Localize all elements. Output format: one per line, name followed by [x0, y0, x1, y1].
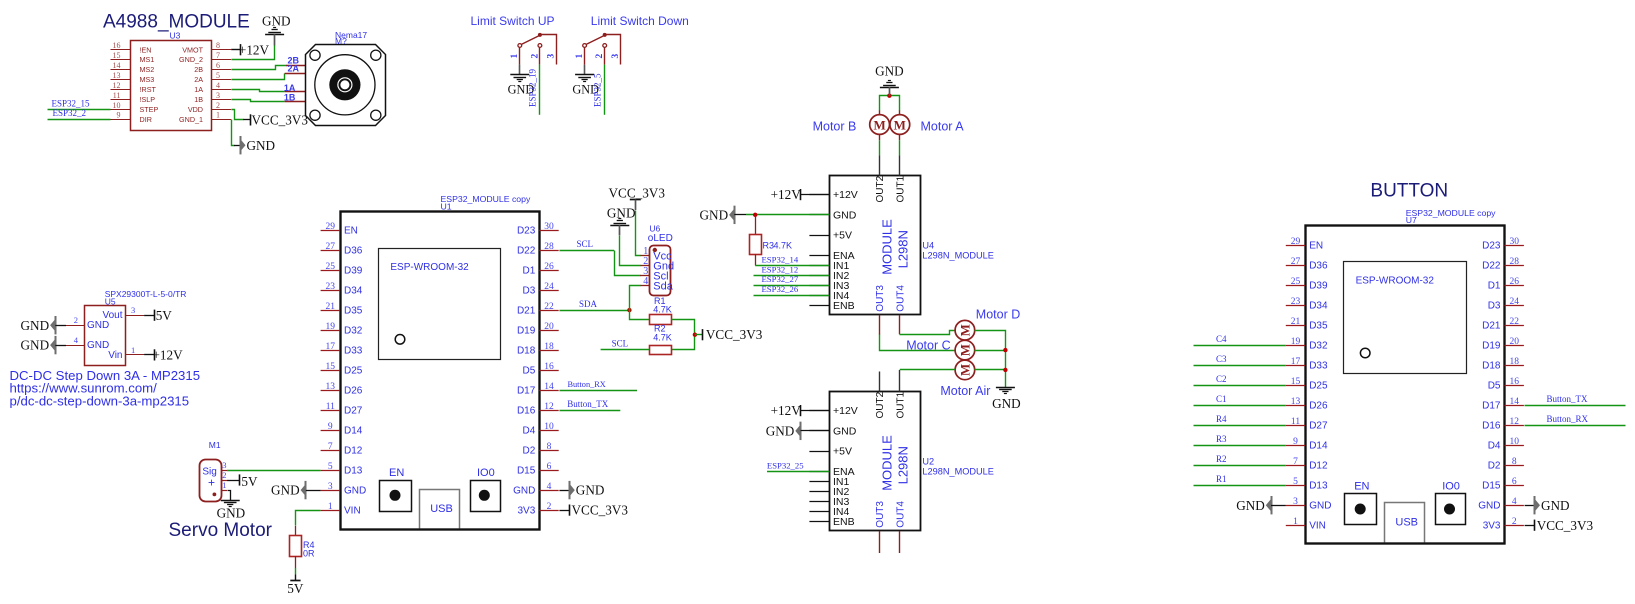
svg-text:GND_2: GND_2 — [179, 55, 203, 64]
svg-text:C2: C2 — [1216, 374, 1227, 384]
svg-text:2: 2 — [222, 470, 226, 480]
svg-text:17: 17 — [1291, 357, 1301, 367]
svg-text:4: 4 — [643, 276, 648, 287]
svg-text:D32: D32 — [1309, 341, 1328, 352]
svg-text:GND: GND — [875, 63, 904, 78]
svg-text:D3: D3 — [523, 286, 536, 297]
svg-text:IO0: IO0 — [477, 467, 495, 479]
svg-text:ESP32_5: ESP32_5 — [592, 73, 602, 107]
svg-text:D18: D18 — [1482, 361, 1501, 372]
svg-text:SCL: SCL — [612, 339, 629, 349]
svg-text:D4: D4 — [1488, 441, 1501, 452]
svg-text:EN: EN — [1309, 241, 1323, 252]
svg-text:15: 15 — [326, 362, 336, 372]
svg-text:D1: D1 — [523, 266, 536, 277]
svg-text:1: 1 — [216, 111, 220, 120]
svg-text:28: 28 — [544, 242, 554, 252]
svg-text:30: 30 — [544, 222, 554, 232]
svg-text:ESP32_26: ESP32_26 — [762, 284, 799, 294]
svg-text:GND: GND — [1478, 501, 1500, 512]
svg-text:Vin: Vin — [108, 350, 122, 361]
svg-text:D13: D13 — [344, 466, 363, 477]
svg-text:OUT4: OUT4 — [895, 285, 906, 312]
svg-text:OUT3: OUT3 — [875, 285, 886, 312]
svg-text:5: 5 — [328, 462, 333, 472]
svg-text:D4: D4 — [523, 426, 536, 437]
svg-text:28: 28 — [1509, 257, 1519, 267]
svg-text:MODULE: MODULE — [879, 219, 894, 275]
svg-text:19: 19 — [1291, 337, 1301, 347]
svg-text:!RST: !RST — [140, 85, 157, 94]
svg-text:OUT1: OUT1 — [895, 391, 906, 418]
svg-text:ESP32_MODULE copy: ESP32_MODULE copy — [1406, 208, 1496, 218]
svg-text:D3: D3 — [1488, 301, 1501, 312]
svg-text:3: 3 — [611, 54, 621, 59]
svg-text:29: 29 — [326, 222, 336, 232]
svg-text:D22: D22 — [517, 246, 536, 257]
svg-text:C3: C3 — [1216, 354, 1227, 364]
svg-text:GND: GND — [21, 338, 50, 353]
svg-text:D36: D36 — [1309, 261, 1328, 272]
svg-text:7: 7 — [1293, 457, 1298, 467]
svg-text:SPX29300T-L-5-0/TR: SPX29300T-L-5-0/TR — [105, 289, 187, 299]
svg-text:Sda: Sda — [653, 280, 673, 292]
svg-text:21: 21 — [326, 302, 336, 312]
svg-text:R1: R1 — [1216, 474, 1227, 484]
svg-text:Limit Switch Down: Limit Switch Down — [591, 14, 689, 28]
svg-text:1A: 1A — [194, 85, 203, 94]
svg-text:GND: GND — [344, 486, 366, 497]
svg-text:ESP32_19: ESP32_19 — [528, 68, 538, 107]
svg-text:D13: D13 — [1309, 481, 1328, 492]
svg-text:23: 23 — [326, 282, 336, 292]
svg-text:3: 3 — [216, 91, 220, 100]
svg-text:26: 26 — [544, 262, 554, 272]
svg-text:+: + — [208, 476, 215, 490]
svg-text:GND: GND — [1236, 498, 1265, 513]
svg-text:EN: EN — [344, 226, 358, 237]
svg-text:GND: GND — [992, 396, 1021, 411]
svg-text:USB: USB — [430, 503, 453, 515]
svg-text:2A: 2A — [288, 64, 300, 74]
svg-text:19: 19 — [326, 322, 336, 332]
svg-text:M: M — [894, 117, 906, 132]
svg-text:D33: D33 — [1309, 361, 1328, 372]
svg-text:+12V: +12V — [833, 405, 858, 417]
svg-text:3: 3 — [1293, 497, 1298, 507]
svg-text:14: 14 — [113, 61, 121, 70]
svg-text:GND: GND — [217, 505, 246, 520]
svg-text:13: 13 — [1291, 397, 1301, 407]
svg-text:16: 16 — [544, 362, 554, 372]
svg-text:3: 3 — [546, 54, 556, 59]
svg-text:!SLP: !SLP — [140, 95, 156, 104]
svg-text:+5V: +5V — [833, 230, 852, 242]
svg-text:M: M — [958, 344, 973, 356]
svg-text:4: 4 — [1512, 497, 1517, 507]
svg-text:Motor A: Motor A — [921, 119, 965, 133]
svg-text:1: 1 — [222, 480, 226, 490]
svg-text:30: 30 — [1509, 237, 1519, 247]
svg-text:M: M — [958, 324, 973, 336]
svg-text:2: 2 — [530, 54, 540, 59]
svg-text:5V: 5V — [156, 308, 173, 323]
svg-text:3: 3 — [328, 482, 333, 492]
svg-text:Button_TX: Button_TX — [567, 399, 609, 409]
svg-text:GND: GND — [21, 318, 50, 333]
svg-text:M: M — [873, 117, 885, 132]
svg-text:GND: GND — [87, 320, 109, 331]
svg-text:2: 2 — [216, 101, 220, 110]
svg-text:24: 24 — [544, 282, 554, 292]
svg-text:D17: D17 — [1482, 401, 1501, 412]
svg-text:2: 2 — [1512, 517, 1517, 527]
svg-text:ESP32_27: ESP32_27 — [762, 274, 799, 284]
svg-text:D12: D12 — [1309, 461, 1328, 472]
svg-text:L298N: L298N — [895, 230, 910, 268]
svg-text:C4: C4 — [1216, 334, 1227, 344]
svg-text:oLED: oLED — [648, 233, 673, 244]
svg-text:18: 18 — [544, 342, 554, 352]
svg-text:ESP32_2: ESP32_2 — [53, 108, 87, 118]
svg-text:29: 29 — [1291, 237, 1301, 247]
svg-text:D19: D19 — [1482, 341, 1501, 352]
svg-text:!EN: !EN — [140, 45, 152, 54]
svg-text:+12V: +12V — [153, 348, 184, 363]
svg-text:Vout: Vout — [102, 310, 122, 321]
svg-text:4: 4 — [216, 81, 220, 90]
svg-text:ESP32_12: ESP32_12 — [762, 264, 799, 274]
svg-text:ENB: ENB — [833, 300, 855, 312]
svg-text:4.7K: 4.7K — [653, 332, 672, 342]
svg-text:VMOT: VMOT — [182, 45, 203, 54]
svg-text:10: 10 — [1509, 437, 1519, 447]
svg-text:D23: D23 — [1482, 241, 1501, 252]
svg-text:D26: D26 — [1309, 401, 1328, 412]
svg-text:D25: D25 — [1309, 381, 1328, 392]
svg-text:D34: D34 — [344, 286, 363, 297]
svg-text:D27: D27 — [344, 406, 363, 417]
svg-text:L298N_MODULE: L298N_MODULE — [922, 466, 994, 476]
svg-text:10: 10 — [113, 101, 121, 110]
svg-text:14: 14 — [544, 382, 554, 392]
svg-text:3V3: 3V3 — [1483, 521, 1501, 532]
svg-text:1: 1 — [575, 54, 585, 59]
svg-text:VDD: VDD — [188, 105, 203, 114]
svg-text:D16: D16 — [1482, 421, 1501, 432]
svg-text:0R: 0R — [303, 548, 315, 558]
svg-text:D1: D1 — [1488, 281, 1501, 292]
svg-text:p/dc-dc-step-down-3a-mp2315: p/dc-dc-step-down-3a-mp2315 — [10, 394, 190, 409]
svg-text:Motor Air: Motor Air — [940, 384, 990, 398]
svg-text:GND: GND — [1309, 501, 1331, 512]
svg-text:D19: D19 — [517, 326, 536, 337]
svg-text:1B: 1B — [284, 93, 296, 103]
svg-text:2A: 2A — [194, 75, 203, 84]
svg-text:GND: GND — [766, 423, 795, 438]
svg-text:20: 20 — [544, 322, 554, 332]
svg-text:13: 13 — [326, 382, 336, 392]
svg-text:MODULE: MODULE — [879, 435, 894, 491]
svg-text:GND: GND — [513, 486, 535, 497]
svg-text:1: 1 — [510, 54, 520, 59]
svg-text:OUT4: OUT4 — [895, 501, 906, 528]
svg-text:1: 1 — [328, 502, 333, 512]
svg-text:4.7K: 4.7K — [774, 240, 793, 250]
svg-text:9: 9 — [328, 422, 333, 432]
svg-text:D35: D35 — [1309, 321, 1328, 332]
svg-text:D17: D17 — [517, 386, 536, 397]
svg-text:D5: D5 — [1488, 381, 1501, 392]
svg-text:14: 14 — [1509, 397, 1519, 407]
svg-text:GND: GND — [1541, 498, 1570, 513]
svg-text:2: 2 — [547, 502, 552, 512]
svg-text:GND: GND — [262, 13, 291, 28]
svg-text:D21: D21 — [1482, 321, 1501, 332]
svg-text:+12V: +12V — [771, 187, 802, 202]
svg-text:D23: D23 — [517, 226, 536, 237]
svg-text:U3: U3 — [170, 31, 181, 41]
svg-text:GND: GND — [576, 483, 605, 498]
svg-text:MS1: MS1 — [140, 55, 155, 64]
svg-text:Button_RX: Button_RX — [1547, 414, 1589, 424]
svg-text:L298N: L298N — [895, 446, 910, 484]
svg-text:Button_RX: Button_RX — [568, 380, 606, 389]
svg-text:ESP32_14: ESP32_14 — [762, 254, 799, 264]
svg-text:8: 8 — [1512, 457, 1517, 467]
svg-text:OUT2: OUT2 — [875, 175, 886, 202]
svg-text:D33: D33 — [344, 346, 363, 357]
svg-text:12: 12 — [113, 81, 121, 90]
svg-text:25: 25 — [1291, 277, 1301, 287]
svg-text:3: 3 — [131, 305, 135, 315]
svg-text:D5: D5 — [523, 366, 536, 377]
svg-text:D16: D16 — [517, 406, 536, 417]
svg-text:1: 1 — [1293, 517, 1298, 527]
svg-text:DIR: DIR — [140, 115, 152, 124]
svg-text:27: 27 — [326, 242, 336, 252]
svg-text:6: 6 — [1512, 477, 1517, 487]
svg-text:USB: USB — [1395, 517, 1418, 529]
svg-text:GND: GND — [833, 209, 857, 221]
svg-text:D22: D22 — [1482, 261, 1501, 272]
svg-text:1: 1 — [131, 345, 135, 355]
svg-text:5V: 5V — [287, 581, 304, 596]
svg-text:Motor B: Motor B — [813, 119, 857, 133]
svg-text:OUT2: OUT2 — [875, 391, 886, 418]
svg-text:26: 26 — [1509, 277, 1519, 287]
svg-text:4.7K: 4.7K — [653, 305, 672, 315]
svg-text:9: 9 — [117, 111, 121, 120]
svg-text:IO0: IO0 — [1442, 481, 1460, 493]
svg-text:Limit Switch UP: Limit Switch UP — [471, 14, 555, 28]
svg-text:VCC_3V3: VCC_3V3 — [252, 113, 309, 128]
svg-text:ESP-WROOM-32: ESP-WROOM-32 — [1356, 276, 1435, 287]
svg-text:+12V: +12V — [771, 403, 802, 418]
svg-text:24: 24 — [1509, 297, 1519, 307]
svg-text:11: 11 — [326, 402, 335, 412]
svg-text:D2: D2 — [523, 446, 536, 457]
svg-text:D21: D21 — [517, 306, 536, 317]
svg-text:MS2: MS2 — [140, 65, 155, 74]
svg-text:D2: D2 — [1488, 461, 1501, 472]
svg-text:R2: R2 — [1216, 454, 1227, 464]
svg-text:D18: D18 — [517, 346, 536, 357]
svg-text:8: 8 — [547, 442, 552, 452]
svg-text:VIN: VIN — [344, 506, 361, 517]
svg-text:EN: EN — [389, 467, 404, 479]
svg-text:D15: D15 — [517, 466, 536, 477]
svg-text:ESP32_25: ESP32_25 — [767, 460, 804, 470]
svg-text:M?: M? — [335, 36, 347, 46]
svg-text:2: 2 — [74, 315, 78, 325]
svg-text:7: 7 — [328, 442, 333, 452]
svg-text:+5V: +5V — [833, 446, 852, 458]
svg-text:EN: EN — [1354, 481, 1369, 493]
svg-text:BUTTON: BUTTON — [1370, 181, 1448, 202]
svg-text:GND_1: GND_1 — [179, 115, 203, 124]
svg-text:27: 27 — [1291, 257, 1301, 267]
svg-text:D34: D34 — [1309, 301, 1328, 312]
svg-text:VCC_3V3: VCC_3V3 — [609, 185, 666, 200]
svg-text:VIN: VIN — [1309, 521, 1326, 532]
svg-text:OUT1: OUT1 — [895, 175, 906, 202]
svg-text:17: 17 — [326, 342, 336, 352]
svg-text:6: 6 — [216, 61, 220, 70]
svg-text:Button_TX: Button_TX — [1547, 394, 1589, 404]
svg-text:ENB: ENB — [833, 516, 855, 528]
svg-text:GND: GND — [247, 138, 276, 153]
svg-text:Motor C: Motor C — [906, 338, 950, 352]
svg-text:3V3: 3V3 — [518, 506, 536, 517]
svg-text:U6: U6 — [649, 224, 660, 234]
svg-text:R3: R3 — [763, 240, 775, 250]
svg-text:21: 21 — [1291, 317, 1301, 327]
svg-text:L298N_MODULE: L298N_MODULE — [922, 250, 994, 260]
svg-text:22: 22 — [1509, 317, 1519, 327]
svg-text:ESP32_15: ESP32_15 — [52, 98, 91, 108]
svg-text:D12: D12 — [344, 446, 363, 457]
svg-text:OUT3: OUT3 — [875, 501, 886, 528]
svg-text:D36: D36 — [344, 246, 363, 257]
svg-text:20: 20 — [1509, 337, 1519, 347]
svg-text:MS3: MS3 — [140, 75, 155, 84]
svg-text:GND: GND — [271, 483, 300, 498]
svg-text:ESP32_MODULE copy: ESP32_MODULE copy — [441, 194, 531, 204]
svg-text:GND: GND — [700, 207, 729, 222]
svg-text:VCC_3V3: VCC_3V3 — [1537, 518, 1594, 533]
svg-text:8: 8 — [216, 41, 220, 50]
svg-text:GND: GND — [833, 425, 857, 437]
svg-text:U4: U4 — [922, 241, 934, 251]
svg-text:D14: D14 — [344, 426, 363, 437]
svg-text:ESP-WROOM-32: ESP-WROOM-32 — [390, 262, 469, 273]
svg-text:1B: 1B — [194, 95, 203, 104]
svg-text:D39: D39 — [344, 266, 363, 277]
svg-text:3: 3 — [222, 460, 226, 470]
svg-text:9: 9 — [1293, 437, 1298, 447]
svg-text:VCC_3V3: VCC_3V3 — [706, 327, 763, 342]
svg-text:VCC_3V3: VCC_3V3 — [572, 503, 629, 518]
svg-text:M: M — [958, 364, 973, 376]
svg-text:+12V: +12V — [833, 189, 858, 201]
svg-text:6: 6 — [547, 462, 552, 472]
svg-text:11: 11 — [1291, 417, 1300, 427]
svg-text:D32: D32 — [344, 326, 363, 337]
svg-text:4: 4 — [547, 482, 552, 492]
svg-text:U2: U2 — [922, 457, 934, 467]
svg-text:U1: U1 — [441, 201, 452, 211]
svg-text:R3: R3 — [1216, 434, 1227, 444]
svg-text:5: 5 — [216, 71, 220, 80]
svg-text:D26: D26 — [344, 386, 363, 397]
svg-text:SDA: SDA — [579, 299, 598, 309]
svg-text:A4988_MODULE: A4988_MODULE — [103, 11, 250, 32]
svg-text:D14: D14 — [1309, 441, 1328, 452]
svg-text:SCL: SCL — [577, 239, 594, 249]
svg-text:12: 12 — [544, 402, 554, 412]
svg-text:7: 7 — [216, 51, 220, 60]
svg-text:C1: C1 — [1216, 394, 1227, 404]
svg-text:5: 5 — [1293, 477, 1298, 487]
svg-text:2: 2 — [595, 54, 605, 59]
svg-text:18: 18 — [1509, 357, 1519, 367]
svg-text:10: 10 — [544, 422, 554, 432]
svg-text:16: 16 — [113, 41, 121, 50]
svg-text:2B: 2B — [194, 65, 203, 74]
svg-text:16: 16 — [1509, 377, 1519, 387]
svg-text:D25: D25 — [344, 366, 363, 377]
svg-text:22: 22 — [544, 302, 554, 312]
svg-text:STEP: STEP — [140, 105, 159, 114]
svg-text:13: 13 — [113, 71, 121, 80]
svg-text:+12V: +12V — [239, 42, 270, 57]
svg-text:U7: U7 — [1406, 215, 1417, 225]
svg-text:Servo Motor: Servo Motor — [169, 520, 273, 541]
svg-text:M1: M1 — [209, 440, 221, 450]
svg-text:R4: R4 — [1216, 414, 1227, 424]
svg-text:D39: D39 — [1309, 281, 1328, 292]
svg-text:Motor D: Motor D — [976, 308, 1020, 322]
svg-text:23: 23 — [1291, 297, 1301, 307]
svg-text:D15: D15 — [1482, 481, 1501, 492]
svg-text:5V: 5V — [241, 474, 258, 489]
svg-text:D27: D27 — [1309, 421, 1328, 432]
svg-text:12: 12 — [1509, 417, 1519, 427]
svg-text:D35: D35 — [344, 306, 363, 317]
svg-text:GND: GND — [87, 340, 109, 351]
svg-text:11: 11 — [113, 91, 121, 100]
svg-text:15: 15 — [1291, 377, 1301, 387]
svg-text:15: 15 — [113, 51, 121, 60]
svg-text:25: 25 — [326, 262, 336, 272]
